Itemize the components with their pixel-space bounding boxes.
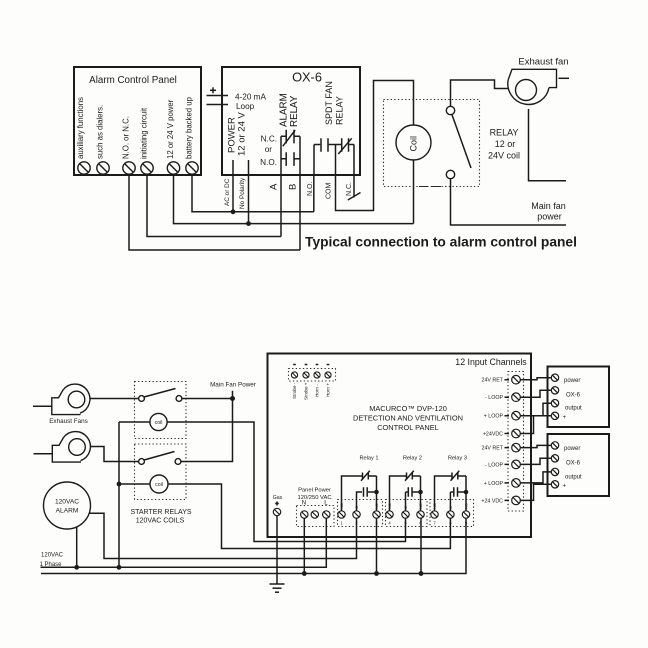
junction dot	[117, 565, 122, 570]
svg-text:C: C	[354, 506, 359, 509]
svg-text:COM: COM	[325, 183, 332, 200]
starter relay 1 dashed box	[135, 382, 187, 439]
svg-text:Coil: Coil	[409, 136, 419, 152]
wire t5 to box2 power	[520, 445, 551, 447]
box1 screw power	[551, 374, 558, 381]
gas sensor terminal	[273, 508, 280, 515]
wire t7 to box2 output	[520, 472, 551, 483]
svg-text:battery backed up: battery backed up	[185, 96, 194, 159]
input terminal +24VDC (2)	[512, 496, 521, 505]
svg-text:output: output	[565, 406, 582, 412]
relay switch blade	[452, 115, 471, 168]
dash accent on enclosure bottom	[419, 186, 446, 188]
no-connect slash	[348, 193, 361, 201]
svg-text:N.O.: N.O.	[307, 182, 314, 196]
panel power terminal L	[323, 511, 330, 518]
svg-text:NO: NO	[339, 503, 344, 509]
wire AC/DC pin drop	[232, 175, 234, 212]
svg-text:STARTER RELAYS: STARTER RELAYS	[130, 509, 191, 516]
label POWER 12 or 24 V	[227, 112, 248, 156]
svg-text:power: power	[564, 446, 580, 452]
svg-text:ALARM: ALARM	[56, 508, 79, 515]
relay2 N.C. contact	[390, 471, 421, 511]
SPDT pin verticals	[314, 145, 354, 176]
exhaust fan blower 1	[33, 384, 90, 415]
junction dot	[374, 571, 379, 576]
junction dot	[302, 571, 307, 576]
terminal T2 auxiliary	[97, 162, 109, 174]
svg-text:NC: NC	[374, 503, 379, 509]
svg-text:+ LOOP: + LOOP	[484, 414, 504, 420]
tiny terminal numbers	[340, 521, 468, 526]
label N.O. or N.C. initiating circuit	[122, 107, 149, 159]
svg-text:Strobe -: Strobe -	[292, 382, 297, 399]
exhaust fan blower	[508, 69, 569, 104]
label 4-20 mA Loop	[235, 93, 266, 111]
svg-text:OX-6: OX-6	[566, 393, 581, 399]
relay3 terminals	[431, 511, 438, 518]
wire t8 to box2 s4	[520, 484, 551, 500]
DVP-120 control panel box	[268, 354, 532, 538]
label STARTER RELAYS 120VAC COILS	[130, 509, 191, 525]
svg-text:output: output	[565, 474, 582, 480]
relay switch bottom terminal	[446, 170, 454, 178]
strip labels	[481, 378, 509, 505]
svg-text:NO: NO	[387, 503, 392, 509]
svg-text:Panel Power: Panel Power	[298, 488, 331, 494]
junction dot	[231, 209, 236, 214]
wire N.O. pin drop	[313, 175, 315, 212]
label 12 or 24 V power battery backed up	[166, 96, 194, 159]
box1 screw 2	[551, 387, 558, 394]
svg-text:C: C	[403, 506, 408, 509]
relay switch top terminal	[446, 106, 454, 114]
wire initiating circuit to pin A	[147, 174, 281, 237]
relay3 N.C. contact	[435, 471, 467, 511]
svg-text:Relay 2: Relay 2	[403, 456, 422, 462]
label auxiliary functions	[76, 97, 105, 159]
wire panel N to bus B	[303, 518, 305, 573]
svg-text:initiating circuit: initiating circuit	[140, 107, 149, 159]
strobe terminal -	[291, 372, 297, 378]
box1 labels	[563, 378, 583, 421]
svg-text:Relay 3: Relay 3	[448, 456, 467, 462]
svg-text:12 Input Channels: 12 Input Channels	[455, 357, 527, 367]
label 120VAC 1 Phase	[39, 553, 63, 569]
svg-text:coil: coil	[155, 420, 163, 426]
starter switch 2	[139, 452, 181, 465]
label SPDT FAN RELAY	[324, 81, 345, 125]
box1 screw 4	[551, 412, 558, 419]
svg-text:Loop: Loop	[236, 102, 255, 111]
svg-text:- LOOP: - LOOP	[485, 395, 503, 401]
input channel dashed strip	[508, 372, 524, 512]
svg-text:Strobe +: Strobe +	[304, 382, 309, 400]
svg-text:L: L	[324, 500, 328, 507]
starter coil 1	[150, 413, 167, 430]
OX-6 sensor box 1	[548, 367, 610, 428]
OX-6 box	[222, 67, 360, 175]
alarm relay pin B vertical	[299, 136, 301, 175]
svg-text:- LOOP: - LOOP	[485, 462, 503, 468]
relay1 dashed box	[338, 500, 383, 527]
terminal T6 battery backed up	[186, 162, 198, 174]
svg-text:N.O.: N.O.	[260, 158, 277, 167]
svg-text:Main fan: Main fan	[531, 201, 566, 211]
wire coil bottom to power line	[413, 160, 415, 224]
wire t4 to box1 s4	[520, 416, 551, 434]
svg-text:CONTROL PANEL: CONTROL PANEL	[377, 423, 439, 432]
svg-text:coil: coil	[155, 482, 163, 488]
svg-text:AC or DC: AC or DC	[224, 178, 231, 206]
strobe/horn terminal dashed box	[289, 369, 336, 382]
relay2 snubber capacitor	[406, 487, 423, 511]
wire gas terminal to ground	[276, 516, 278, 584]
wire coil1 to relay2 coil terminal	[167, 422, 405, 542]
relay1 terminals	[338, 511, 345, 518]
wire alarm to relay1 coil terminal	[90, 513, 357, 558]
svg-text:MACURCO™ DVP-120: MACURCO™ DVP-120	[369, 404, 447, 413]
relay3 snubber capacitor	[450, 487, 468, 511]
label Panel Power 120/250 VAC	[297, 488, 331, 502]
svg-text:12 or 24 V: 12 or 24 V	[237, 112, 248, 156]
box2 screw 4	[551, 481, 558, 488]
svg-text:No Polarity: No Polarity	[239, 177, 246, 209]
relay1 N.C. contact	[342, 471, 377, 511]
wire relay1 NO to bus B	[376, 518, 378, 573]
input terminal -LOOP	[512, 393, 521, 402]
label RELAY 12 or 24V coil	[488, 128, 520, 161]
svg-text:NC: NC	[418, 503, 423, 509]
wire coil2 left lead	[119, 483, 150, 485]
svg-text:+ LOOP: + LOOP	[484, 481, 504, 487]
terminal T5 12/24V power	[167, 162, 179, 174]
svg-text:24V RET: 24V RET	[482, 446, 504, 452]
wire switch1 to main fan power junction	[182, 398, 233, 400]
svg-text:120VAC: 120VAC	[41, 553, 64, 559]
alarm relay pin A vertical	[280, 136, 282, 175]
terminal T1 auxiliary	[78, 162, 90, 174]
svg-text:DETECTION AND VENTILATION: DETECTION AND VENTILATION	[353, 414, 463, 423]
panel power dashed box	[297, 506, 335, 527]
label ALARM RELAY	[279, 93, 300, 127]
wire junction to switch 2	[181, 399, 233, 462]
input terminal -LOOP (2)	[512, 460, 521, 469]
svg-text:+24VDC: +24VDC	[483, 432, 503, 438]
wire pin A drop	[280, 175, 282, 237]
box2 screw 2	[551, 455, 558, 462]
wire fan1 to starter switch 1	[90, 398, 139, 400]
svg-text:or: or	[265, 145, 273, 154]
box2 screw power	[551, 442, 558, 449]
starter switch 1	[139, 389, 182, 402]
svg-text:power: power	[537, 212, 562, 222]
label MACURCO DVP-120	[353, 404, 463, 432]
svg-text:24V coil: 24V coil	[488, 151, 520, 161]
wire N.O./N.C. terminal to pin B	[129, 174, 300, 250]
main fan power stub	[232, 391, 234, 399]
svg-text:RELAY: RELAY	[490, 128, 519, 138]
svg-text:Alarm Control Panel: Alarm Control Panel	[89, 75, 177, 86]
panel power terminal G	[311, 511, 318, 518]
svg-text:N.C.: N.C.	[346, 182, 353, 196]
starter coil 2	[150, 475, 168, 493]
svg-text:4-20 mA: 4-20 mA	[235, 93, 266, 102]
svg-text:Horn -: Horn -	[315, 384, 320, 397]
svg-text:auxiliary functions: auxiliary functions	[76, 97, 85, 159]
4-20 mA loop terminal lines	[207, 87, 229, 104]
gas tick	[275, 502, 279, 506]
svg-text:120VAC COILS: 120VAC COILS	[136, 518, 185, 525]
input terminal +LOOP (2)	[512, 479, 521, 488]
wire N.C. pin stub	[353, 175, 355, 198]
svg-text:12 or 24 V power: 12 or 24 V power	[166, 99, 175, 159]
svg-text:N: N	[302, 500, 306, 507]
svg-text:Horn +: Horn +	[326, 383, 331, 397]
junction dot coil2 tee	[117, 482, 122, 487]
box2 labels	[563, 446, 583, 489]
svg-text:12 or: 12 or	[495, 139, 516, 149]
wire switch top to exhaust fan	[451, 80, 508, 106]
wire coil2 to relay3 coil terminal	[168, 484, 450, 549]
input terminal +LOOP	[512, 411, 521, 420]
exhaust fan blower 2	[34, 432, 91, 463]
polarity ticks	[293, 364, 329, 366]
wire t2 to box1 s2	[520, 390, 551, 397]
wire t6 to box2 s2	[520, 458, 551, 464]
coil supply bus vertical	[118, 422, 120, 567]
svg-text:Typical connection to alarm co: Typical connection to alarm control pane…	[305, 235, 577, 250]
power pin stubs	[233, 160, 249, 175]
junction dot	[419, 571, 424, 576]
label Main fan power	[531, 201, 566, 222]
relay3 dashed box	[430, 500, 474, 527]
svg-text:Gas: Gas	[273, 495, 283, 501]
box2 screw output	[551, 468, 558, 475]
input terminal 24V RET	[512, 375, 521, 384]
horn terminal -	[314, 372, 320, 378]
svg-text:+24 VDC: +24 VDC	[481, 498, 503, 504]
relay2 dashed box	[386, 500, 428, 527]
box1 screw output	[551, 400, 558, 407]
svg-text:NO: NO	[432, 503, 437, 509]
tiny pin labels	[339, 503, 469, 509]
horn terminal +	[325, 372, 331, 378]
wire switch bottom to main fan power	[451, 179, 567, 225]
svg-text:120VAC: 120VAC	[55, 499, 79, 506]
terminal T3 N.O. or N.C.	[123, 162, 135, 174]
junction dot	[74, 565, 79, 570]
input terminal +24VDC	[512, 429, 521, 438]
wire COM to relay coil top	[336, 81, 414, 211]
wire t1 to box1 power	[520, 378, 551, 380]
svg-text:24V RET: 24V RET	[482, 378, 504, 384]
wire pin B drop	[299, 175, 301, 250]
relay coil	[396, 125, 431, 160]
junction dot	[230, 396, 235, 401]
label N.C. or N.O.	[260, 135, 277, 168]
svg-text:NC: NC	[464, 503, 469, 509]
starter relay 2 dashed box	[135, 444, 187, 500]
wire No-Polarity pin drop	[248, 175, 250, 224]
120VAC alarm bell	[44, 482, 91, 529]
terminal T4 initiating circuit	[141, 162, 153, 174]
svg-text:B: B	[287, 184, 298, 190]
relay dashed enclosure	[384, 100, 480, 187]
panel power terminal N	[301, 511, 308, 518]
svg-text:A: A	[268, 183, 279, 190]
input terminal 24V RET (2)	[512, 443, 521, 452]
supply bus B	[41, 518, 466, 573]
SPDT fan relay contacts	[314, 138, 354, 154]
svg-text:Exhaust Fans: Exhaust Fans	[49, 418, 88, 425]
OX-6 sensor box 2	[548, 434, 610, 496]
svg-text:power: power	[564, 378, 580, 384]
wire t3 to box1 output	[520, 403, 551, 416]
wire 12/24V power to No-Polarity pin and relay coil	[174, 174, 414, 224]
svg-text:RELAY: RELAY	[289, 95, 300, 127]
relay2 terminals	[386, 511, 393, 518]
wire alarm bottom to bus A	[76, 527, 78, 567]
svg-text:+: +	[563, 415, 567, 421]
svg-text:+: +	[563, 483, 567, 489]
strobe terminal +	[303, 372, 309, 378]
ground	[270, 584, 285, 592]
junction dot	[246, 221, 251, 226]
svg-text:N.C.: N.C.	[261, 135, 277, 144]
svg-text:Exhaust fan: Exhaust fan	[518, 57, 568, 68]
relay1 snubber capacitor	[357, 487, 379, 511]
svg-text:Main Fan Power: Main Fan Power	[210, 382, 256, 389]
alarm relay N.C. contact	[281, 130, 300, 146]
svg-text:OX-6: OX-6	[292, 70, 322, 85]
svg-text:RELAY: RELAY	[335, 96, 345, 125]
svg-text:C: C	[448, 506, 453, 509]
svg-text:SPDT FAN: SPDT FAN	[324, 81, 334, 125]
svg-text:OX-6: OX-6	[566, 460, 581, 466]
svg-text:such as dialers.: such as dialers.	[96, 105, 105, 159]
alarm control panel box	[74, 67, 201, 175]
wire fan to main fan power	[529, 109, 567, 181]
svg-text:Relay 1: Relay 1	[360, 456, 379, 462]
wire coil1 left lead	[119, 421, 150, 423]
wire relay2 NO to bus B	[420, 518, 422, 573]
wire battery+ to AC/DC pin and alarm relay N.O.	[192, 174, 314, 212]
alarm relay N.O. contact	[281, 152, 300, 166]
svg-text:N.O. or N.C.: N.O. or N.C.	[122, 116, 131, 159]
supply bus A	[41, 518, 327, 567]
wire fan2 to starter switch 2	[91, 447, 139, 462]
